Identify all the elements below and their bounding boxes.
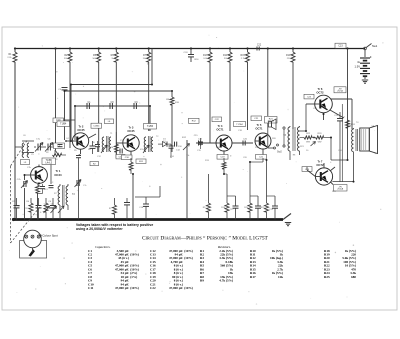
svg-text:R5: R5 <box>93 54 97 57</box>
svg-text:C23: C23 <box>338 46 343 48</box>
svg-text:R24: R24 <box>351 124 356 126</box>
svg-text:C5: C5 <box>31 154 35 156</box>
svg-text:R6: R6 <box>110 147 114 149</box>
svg-text:R10: R10 <box>175 102 180 104</box>
svg-text:R7: R7 <box>143 54 147 57</box>
svg-text:R13: R13 <box>203 54 208 57</box>
svg-text:R23: R23 <box>318 133 323 135</box>
svg-text:OC44: OC44 <box>54 173 62 177</box>
svg-text:using a 20,000Ω/V voltmeter: using a 20,000Ω/V voltmeter <box>76 227 123 231</box>
svg-text:R21: R21 <box>300 146 305 148</box>
svg-text:R2: R2 <box>64 54 68 57</box>
svg-text:C14: C14 <box>170 156 175 158</box>
svg-text:OC45: OC45 <box>127 129 135 133</box>
svg-text:C18: C18 <box>139 207 144 209</box>
svg-text:Sw1: Sw1 <box>372 44 378 48</box>
svg-text:C17: C17 <box>25 208 30 210</box>
svg-text:(10%): (10%) <box>130 253 139 257</box>
svg-text:10k: 10k <box>186 155 190 157</box>
svg-text:T2: T2 <box>156 136 159 138</box>
svg-text:R7: R7 <box>54 193 57 195</box>
svg-text:C7a: C7a <box>36 139 41 141</box>
svg-text:25mA: 25mA <box>337 90 343 93</box>
svg-text:C12: C12 <box>97 156 102 158</box>
svg-text:C20: C20 <box>243 157 248 159</box>
svg-text:C4: C4 <box>66 138 70 140</box>
svg-text:C24: C24 <box>183 52 188 54</box>
svg-text:(1%): (1%) <box>130 275 137 279</box>
svg-text:D1: D1 <box>163 141 167 143</box>
svg-text:C22: C22 <box>269 209 274 211</box>
svg-text:680: 680 <box>351 275 356 279</box>
svg-text:C22: C22 <box>150 286 156 290</box>
svg-text:Tr 7: Tr 7 <box>318 159 323 163</box>
svg-text:C3: C3 <box>58 89 62 91</box>
svg-text:OC71: OC71 <box>255 127 263 131</box>
svg-text:Tr 4: Tr 4 <box>218 124 223 128</box>
svg-text:C7b: C7b <box>17 179 22 181</box>
svg-text:OC71: OC71 <box>216 128 224 132</box>
svg-text:(10%): (10%) <box>130 286 139 290</box>
svg-text:C6: C6 <box>92 142 95 144</box>
svg-text:R13: R13 <box>205 160 210 162</box>
svg-text:R16: R16 <box>195 59 200 61</box>
svg-text:T1: T1 <box>110 133 113 135</box>
svg-text:T3: T3 <box>283 134 286 137</box>
svg-text:T1/B4: T1/B4 <box>60 124 67 126</box>
svg-text:WW: WW <box>306 142 310 144</box>
svg-text:47,000 pF.: 47,000 pF. <box>115 286 129 290</box>
svg-text:R20: R20 <box>272 138 277 140</box>
svg-text:L4+L5: L4+L5 <box>46 162 53 164</box>
svg-text:R17: R17 <box>250 275 256 279</box>
svg-text:R6: R6 <box>88 149 92 151</box>
svg-text:C1: C1 <box>88 102 92 104</box>
svg-text:R25: R25 <box>332 191 337 193</box>
svg-text:OC72: OC72 <box>316 91 324 95</box>
svg-text:R7: R7 <box>109 208 113 210</box>
svg-text:25mA: 25mA <box>337 188 343 191</box>
svg-text:R19: R19 <box>286 54 291 57</box>
svg-text:Colour Spot: Colour Spot <box>42 233 57 237</box>
svg-text:C11: C11 <box>88 286 94 290</box>
svg-text:C26: C26 <box>338 150 343 152</box>
svg-text:1.5V: 1.5V <box>354 65 360 69</box>
svg-text:T2: T2 <box>72 193 75 196</box>
svg-text:T1/B3: T1/B3 <box>147 126 154 128</box>
svg-text:(10%): (10%) <box>184 286 193 290</box>
svg-text:Tr 1: Tr 1 <box>56 169 61 173</box>
svg-text:47k: 47k <box>140 149 144 151</box>
svg-text:47,000 pF.: 47,000 pF. <box>169 286 183 290</box>
svg-text:C17: C17 <box>230 209 235 211</box>
svg-text:C18: C18 <box>238 130 243 132</box>
svg-text:Tr 5: Tr 5 <box>257 123 262 127</box>
svg-text:WW: WW <box>318 142 322 144</box>
svg-text:C14: C14 <box>176 150 181 152</box>
svg-text:C11: C11 <box>120 140 125 142</box>
svg-text:(10%): (10%) <box>184 256 193 260</box>
svg-text:C4: C4 <box>48 139 52 141</box>
svg-text:R10: R10 <box>178 146 183 148</box>
svg-text:C16: C16 <box>198 139 203 141</box>
svg-text:T4: T4 <box>356 122 359 124</box>
svg-text:OC45: OC45 <box>77 128 85 132</box>
svg-text:T17B4: T17B4 <box>236 124 243 126</box>
svg-text:OC72: OC72 <box>316 163 324 167</box>
svg-text:R12: R12 <box>182 137 187 139</box>
svg-text:C7c: C7c <box>83 185 87 187</box>
svg-text:C15: C15 <box>194 135 199 137</box>
svg-text:L2: L2 <box>51 182 54 184</box>
svg-text:Capacitors.: Capacitors. <box>95 245 111 249</box>
svg-text:R22: R22 <box>306 133 311 135</box>
svg-text:R8: R8 <box>293 155 296 157</box>
svg-text:C15: C15 <box>197 150 202 152</box>
svg-text:Sw2: Sw2 <box>277 151 282 154</box>
svg-text:10: 10 <box>306 150 309 152</box>
svg-text:12k: 12k <box>278 275 283 279</box>
svg-text:C13: C13 <box>44 189 49 191</box>
svg-text:Tr 3: Tr 3 <box>129 126 134 130</box>
svg-text:R2: R2 <box>46 152 50 154</box>
svg-text:C22: C22 <box>257 45 262 47</box>
svg-text:R14: R14 <box>223 54 228 57</box>
svg-text:Circuit Diagram—Philips “ Pers: Circuit Diagram—Philips “ Personic ” Mod… <box>142 235 269 242</box>
svg-text:C20: C20 <box>243 139 248 141</box>
svg-text:R25: R25 <box>324 275 330 279</box>
svg-text:R9: R9 <box>200 279 204 283</box>
svg-text:C1/B4: C1/B4 <box>93 126 100 128</box>
svg-text:R1: R1 <box>8 53 12 56</box>
svg-text:Tr 6: Tr 6 <box>318 87 323 91</box>
svg-text:C8: C8 <box>111 102 115 104</box>
svg-text:(10%): (10%) <box>184 249 193 253</box>
svg-text:R4: R4 <box>26 201 30 203</box>
svg-text:C6: C6 <box>23 135 27 137</box>
svg-text:Tr 2: Tr 2 <box>79 125 84 129</box>
svg-text:R5: R5 <box>74 150 78 152</box>
svg-text:4.7k (5%): 4.7k (5%) <box>219 279 233 283</box>
svg-text:C25: C25 <box>334 115 339 117</box>
svg-text:R15: R15 <box>241 54 246 57</box>
svg-text:2.2k: 2.2k <box>7 57 12 59</box>
svg-text:C7b: C7b <box>27 167 32 169</box>
svg-text:C9: C9 <box>135 102 139 104</box>
svg-text:R6: R6 <box>111 54 115 57</box>
